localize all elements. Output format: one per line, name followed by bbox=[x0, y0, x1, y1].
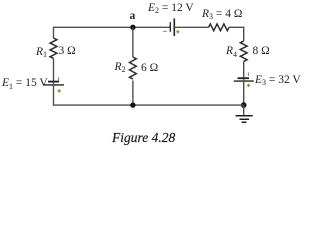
ground symbol bbox=[236, 116, 253, 122]
battery E1 long plate (positive) bbox=[44, 84, 64, 86]
battery E3 long plate (positive) bbox=[234, 80, 254, 82]
wire E3 down to bottom junction bbox=[243, 78, 245, 105]
battery E3 minus sign (rotated vertical) bbox=[248, 73, 250, 77]
wire junction to ground bbox=[243, 105, 245, 116]
label E3 = 32 V bbox=[255, 75, 301, 87]
label R1 bbox=[36, 47, 47, 59]
caption Figure 4.28 bbox=[112, 131, 175, 145]
battery E3 short plate (negative) bbox=[238, 77, 250, 79]
wire left vertical upper bbox=[53, 27, 55, 38]
wire R2 to bottom wire bbox=[132, 81, 134, 106]
wire node a down to R2 bbox=[132, 27, 134, 57]
wire R4 to E3 bbox=[243, 61, 245, 78]
label node a bbox=[130, 11, 136, 23]
wire right vertical upper bbox=[243, 27, 245, 41]
resistor R3 zigzag bbox=[209, 24, 229, 31]
battery E2 long plate (positive) bbox=[173, 18, 175, 36]
wire R3 to top-right corner bbox=[229, 26, 244, 28]
wire R1 to E1 bbox=[53, 58, 55, 81]
label E1 = 15 V bbox=[2, 78, 48, 90]
battery E2 minus sign bbox=[163, 30, 166, 32]
label R2 bbox=[115, 62, 126, 74]
battery E3 plus sign bbox=[247, 84, 250, 87]
node a junction dot bbox=[130, 25, 135, 30]
label 8 ohm bbox=[253, 46, 270, 58]
wire top-left horizontal (corner to E2 negative plate) bbox=[54, 26, 171, 28]
battery E2 short plate (negative) bbox=[169, 22, 171, 32]
label R3 = 4 ohm bbox=[202, 9, 242, 21]
label 3 ohm bbox=[59, 46, 76, 58]
label 6 ohm bbox=[141, 63, 158, 75]
node junction dot bottom-right bbox=[241, 102, 247, 108]
battery E1 plus sign bbox=[58, 89, 61, 92]
node junction dot bottom-middle bbox=[130, 102, 135, 107]
resistor R4 zigzag bbox=[240, 41, 247, 61]
resistor R2 zigzag bbox=[129, 57, 136, 79]
wire from E2 to R3 bbox=[174, 26, 208, 28]
resistor R1 zigzag bbox=[50, 38, 57, 58]
battery E2 plus sign bbox=[176, 30, 179, 33]
wire E1 to bottom-left corner bbox=[53, 82, 55, 106]
label R4 bbox=[226, 46, 237, 58]
label E2 = 12 V bbox=[148, 3, 194, 15]
battery E1 short plate (negative) bbox=[48, 81, 59, 83]
battery E1 minus sign (rotated vertical) bbox=[58, 77, 60, 80]
wire bottom horizontal bbox=[53, 104, 244, 106]
